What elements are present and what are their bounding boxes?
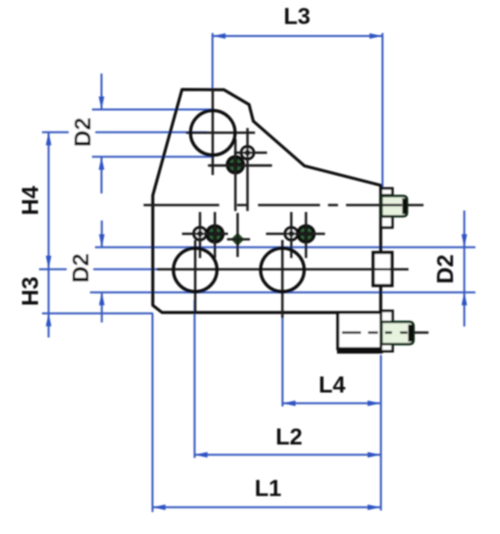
label D2 top (69, 114, 95, 150)
arrow L2 left (195, 452, 208, 458)
ext line top hole upper (92, 109, 212, 111)
port fitting top end cap (402, 198, 406, 214)
svg-text:L2: L2 (276, 424, 303, 450)
ext line L3 left (212, 33, 214, 133)
crosshair lower-left hole vertical (194, 240, 196, 312)
crosshair top hole vertical (211, 90, 213, 175)
bottom block (338, 313, 381, 349)
crosshair S5 vertical (290, 212, 292, 258)
ext line lower holes top (95, 246, 475, 248)
dim H4/H3 line (48, 132, 50, 337)
dim L3 line (213, 35, 383, 37)
ext line body bottom (42, 312, 153, 314)
dim L1 line (153, 506, 381, 508)
arrow L3 right (370, 33, 383, 39)
arrow L2 right (368, 452, 381, 458)
arrow L4 right (368, 401, 381, 407)
dim L2 line (195, 454, 381, 456)
ext line top hole center (42, 131, 207, 133)
arrow L1 left (153, 505, 166, 511)
crosshair top hole horizontal (186, 131, 255, 133)
dim D2 right line (463, 211, 465, 327)
screw S6 torx (mid-right group) (296, 224, 315, 243)
ext line L4 left (282, 318, 284, 407)
crosshair mid-right horizontal (266, 233, 325, 235)
port fitting bottom body (green) (382, 322, 414, 344)
svg-text:H3: H3 (17, 277, 43, 306)
dim D2 mid line lower shaft (101, 292, 103, 322)
svg-text:H4: H4 (17, 186, 43, 216)
port fitting bottom end cap (408, 325, 413, 342)
centerline dash-dot upper port (144, 204, 424, 206)
arrow D2 right upper (462, 234, 468, 247)
arrow D2 top lower (99, 157, 105, 170)
crosshair S1 vertical (246, 128, 248, 211)
centerline dash-dot lower port (342, 331, 429, 333)
svg-text:D2: D2 (70, 117, 96, 146)
arrow H4 top (46, 132, 52, 145)
port fitting top tab lower (381, 217, 392, 228)
screw S5 donut (mid-right group) (285, 228, 297, 240)
green cross marker (231, 233, 244, 246)
ext line right edge bottom (380, 355, 382, 511)
ext line L2 left (194, 300, 196, 458)
screw S2 torx (top group) (226, 155, 245, 174)
crosshair S4 vertical (214, 212, 216, 258)
mid port rectangle (373, 253, 392, 286)
svg-text:L4: L4 (319, 372, 346, 398)
svg-text:L1: L1 (255, 475, 282, 501)
crosshair S1 horizontal (234, 151, 267, 153)
arrow H3 bottom (46, 313, 52, 326)
dim D2 top line upper shaft (101, 74, 103, 110)
label D2 mid (67, 250, 93, 286)
crosshair lower-right hole vertical (281, 240, 283, 318)
ext line lower holes bottom (90, 291, 475, 293)
hole lower-right D2 (261, 248, 305, 292)
crosshair S2 vertical (234, 139, 236, 211)
crosshair S6 vertical (305, 212, 307, 258)
centerline lower holes (157, 268, 409, 270)
arrow L1 right (368, 505, 381, 511)
dim D2 top line lower shaft (101, 157, 103, 194)
ext line lower holes center (39, 268, 160, 270)
arrow L4 left (283, 401, 296, 407)
arrow D2 top upper (99, 97, 105, 110)
crosshair green cross vertical (236, 213, 238, 257)
port fitting top body (green) (382, 196, 408, 216)
body outline (153, 90, 381, 313)
dim L4 line (283, 402, 381, 404)
arrow D2 right lower (462, 292, 468, 305)
hole top D2 (191, 111, 236, 156)
crosshair mid-left horizontal (182, 233, 228, 235)
arrow D2 mid upper (99, 234, 105, 247)
port fitting top tab upper (381, 188, 392, 195)
screw S1 donut (top group) (241, 147, 253, 159)
arrow L3 left (213, 33, 226, 39)
dim D2 mid line upper shaft (101, 221, 103, 248)
arrow H4 bottom / H3 top (46, 256, 52, 269)
crosshair S3 vertical (199, 212, 201, 258)
port fitting bottom tab lower (381, 344, 393, 351)
svg-text:D2: D2 (432, 254, 458, 283)
arrow D2 mid lower (99, 292, 105, 305)
crosshair green cross horizontal (227, 238, 250, 240)
screw S3 donut (mid-left group) (194, 227, 206, 239)
screw S4 torx (mid-left group) (205, 224, 224, 243)
hole lower-left D2 (173, 248, 217, 292)
crosshair S2 horizontal (208, 164, 272, 166)
ext line top hole lower (92, 156, 214, 158)
bottom block base bar (337, 349, 383, 354)
port fitting bottom tab upper (381, 311, 393, 322)
ext line L1 left (152, 314, 154, 513)
ext line L3 right (382, 33, 384, 188)
svg-text:L3: L3 (284, 3, 311, 29)
svg-text:D2: D2 (68, 253, 94, 282)
